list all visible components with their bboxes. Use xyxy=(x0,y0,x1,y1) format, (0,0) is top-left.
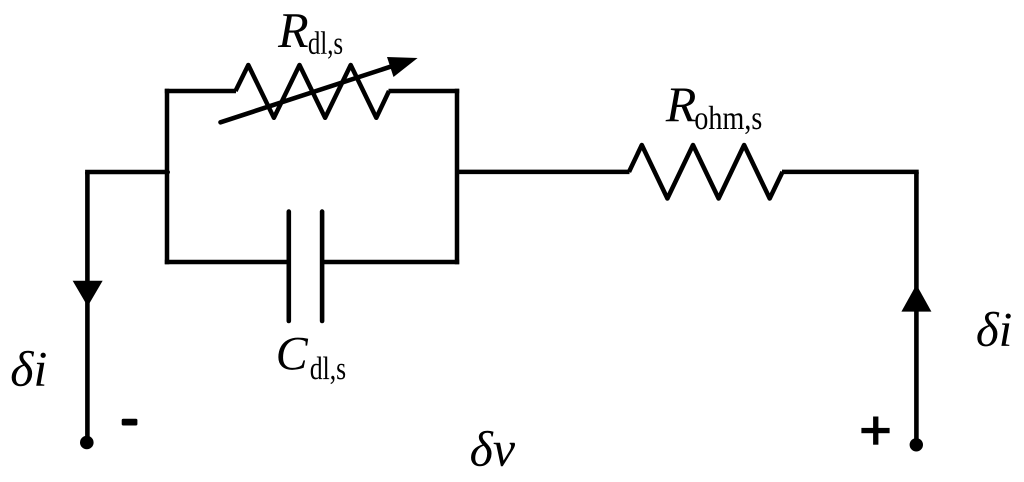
label R_ohm,s xyxy=(666,89,762,135)
wire bottom-left of parallel block xyxy=(165,260,289,265)
variable-resistor arrow of R_dl,s xyxy=(221,57,418,122)
label delta-v xyxy=(471,431,515,466)
label delta-i right xyxy=(977,312,1010,347)
resistor R2 R_ohm,s zigzag xyxy=(629,145,783,199)
capacitor C1 C_dl,s plates xyxy=(289,212,322,321)
label plus sign xyxy=(861,417,889,445)
wire bottom-right of parallel block xyxy=(322,260,459,265)
junction bump at block left side xyxy=(165,170,170,175)
wire left terminal horizontal xyxy=(85,170,167,175)
wire left side of parallel block xyxy=(165,89,170,264)
node right terminal dot xyxy=(910,438,923,451)
wire right terminal vertical xyxy=(914,172,919,445)
wire from block to R_ohm,s xyxy=(457,170,630,175)
label delta-i left xyxy=(12,351,46,386)
current arrow head (down) left branch xyxy=(73,281,103,307)
current arrow head (up) right branch xyxy=(901,285,931,312)
wire from R_ohm,s to right terminal xyxy=(782,170,919,175)
wire left terminal vertical xyxy=(85,172,90,443)
label R_dl,s xyxy=(278,14,342,59)
label C_dl,s xyxy=(278,338,345,384)
node left terminal dot xyxy=(80,436,94,450)
wire top-right of parallel block xyxy=(389,89,460,94)
wire right side of parallel block xyxy=(455,89,460,264)
resistor R1 R_dl,s (variable) zigzag xyxy=(236,65,390,118)
label minus sign xyxy=(122,419,138,426)
wire top-left of parallel block xyxy=(165,89,236,94)
